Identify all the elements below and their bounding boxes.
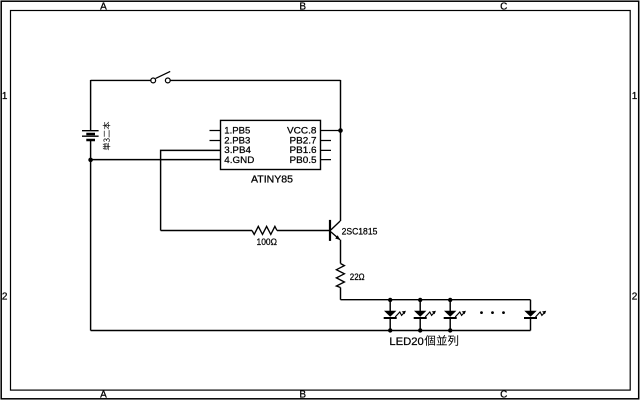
svg-text:2: 2 [2, 292, 8, 303]
svg-text:A: A [100, 390, 107, 400]
svg-text:B: B [299, 390, 306, 400]
svg-text:100Ω: 100Ω [257, 237, 278, 247]
svg-text:1: 1 [632, 91, 638, 102]
svg-text:2: 2 [632, 292, 638, 303]
svg-text:C: C [500, 390, 507, 400]
svg-text:LED20: LED20 [389, 336, 423, 348]
svg-text:PB0.5: PB0.5 [290, 155, 317, 166]
svg-text:ATINY85: ATINY85 [251, 175, 293, 186]
svg-text:2SC1815: 2SC1815 [342, 226, 378, 236]
svg-text:C: C [500, 1, 507, 12]
svg-text:22Ω: 22Ω [350, 272, 365, 282]
svg-text:1: 1 [2, 91, 8, 102]
svg-text:4.GND: 4.GND [224, 155, 254, 166]
svg-text:B: B [299, 1, 306, 12]
svg-text:A: A [100, 1, 107, 12]
